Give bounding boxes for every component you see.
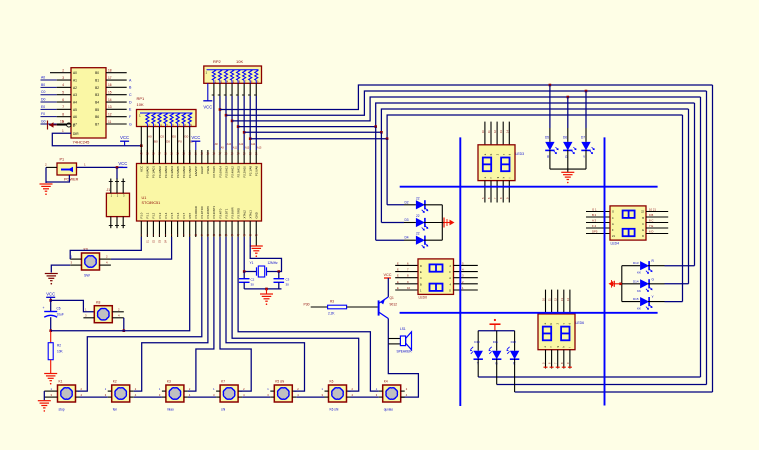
wire K8 pin4 to RST rail bbox=[123, 318, 125, 331]
wire K1 to U1 P3.1 bbox=[78, 237, 202, 391]
svg-text:2: 2 bbox=[62, 69, 64, 73]
LED D2 bbox=[404, 196, 442, 212]
ground at U1 GND pin bbox=[250, 237, 263, 257]
svg-text:A4: A4 bbox=[73, 100, 77, 104]
U2 enable pin 19 with bubble bbox=[57, 120, 79, 137]
crystal ground rail bbox=[244, 288, 281, 294]
svg-text:B0: B0 bbox=[154, 140, 158, 144]
LED D6 tap wire bbox=[567, 96, 570, 142]
bus line vertical right bbox=[604, 137, 606, 405]
K3 pin stubs bbox=[159, 387, 191, 397]
anode rail D10-D12 bbox=[478, 330, 514, 332]
K8 pin stubs bbox=[83, 307, 123, 318]
svg-text:K8: K8 bbox=[96, 301, 100, 305]
wire taps down to D2-D4 anodes bbox=[376, 127, 404, 241]
push button K7 bbox=[220, 380, 238, 412]
display LED3 bottom pins bbox=[481, 181, 509, 203]
power VCC red at Q1 collector bbox=[383, 273, 391, 297]
svg-text:D2: D2 bbox=[405, 200, 409, 204]
power VCC at reset bbox=[46, 291, 55, 300]
svg-text:A3: A3 bbox=[73, 93, 77, 97]
wire U1 P3.6 to K6 bbox=[232, 237, 359, 391]
display LED6 top pins bbox=[542, 290, 570, 314]
LED D3 bbox=[404, 214, 442, 230]
wire D5-D7 cathodes to ground rail bbox=[550, 150, 586, 172]
resistor pack RP1 10K bbox=[137, 96, 197, 127]
svg-text:A 3: A 3 bbox=[592, 219, 596, 223]
K4 pin stubs bbox=[376, 387, 408, 397]
svg-text:SW: SW bbox=[84, 274, 90, 278]
right bus verticals down bbox=[683, 85, 713, 392]
svg-text:C3: C3 bbox=[286, 278, 290, 282]
svg-text:A6: A6 bbox=[73, 115, 77, 119]
power symbol for D10-D12 bbox=[490, 319, 501, 331]
svg-text:C2: C2 bbox=[251, 278, 255, 282]
svg-text:9012: 9012 bbox=[390, 303, 398, 307]
wire XTAL1 to crystal right node bbox=[250, 237, 281, 272]
svg-text:stop: stop bbox=[59, 408, 65, 412]
svg-text:D10: D10 bbox=[474, 340, 480, 344]
LED D5 tap wire bbox=[549, 84, 552, 142]
svg-text:A: A bbox=[612, 222, 614, 226]
svg-text:10K: 10K bbox=[137, 102, 144, 107]
svg-text:DP5: DP5 bbox=[592, 230, 598, 234]
svg-text:E: E bbox=[397, 268, 399, 272]
wire K3 to U1 P3.3 bbox=[188, 237, 214, 391]
svg-text:D5: D5 bbox=[545, 136, 549, 140]
LED D4 bbox=[404, 232, 442, 248]
wire D2-D4 cathode bus bbox=[442, 205, 444, 240]
svg-text:K6 shi: K6 shi bbox=[330, 408, 339, 412]
svg-text:13: 13 bbox=[108, 105, 112, 109]
svg-text:A15: A15 bbox=[257, 147, 262, 150]
svg-text:P1.5: P1.5 bbox=[170, 212, 174, 218]
svg-text:KK: KK bbox=[637, 271, 641, 275]
svg-text:G: G bbox=[129, 122, 132, 126]
svg-text:P1.0: P1.0 bbox=[140, 212, 144, 218]
svg-text:D: D bbox=[420, 264, 422, 268]
P1 pin 2 wire to ground bbox=[45, 163, 69, 184]
LED D12 bbox=[507, 331, 519, 366]
svg-text:P3.2/INT0: P3.2/INT0 bbox=[206, 205, 210, 218]
svg-text:P2.2/A10: P2.2/A10 bbox=[242, 166, 246, 178]
LED D11 bbox=[489, 331, 501, 366]
svg-text:E: E bbox=[642, 228, 644, 232]
svg-text:C0: C0 bbox=[41, 90, 45, 94]
display LED0 left pins bbox=[395, 261, 418, 290]
display LED4 right pins bbox=[646, 208, 668, 234]
svg-text:P1.3: P1.3 bbox=[158, 212, 162, 218]
wire net P2.3 horizontal/vertical run bbox=[238, 103, 694, 127]
ground at K0 dark style bbox=[45, 274, 58, 285]
svg-text:D13: D13 bbox=[633, 261, 639, 265]
power VCC at RP1 common bbox=[120, 135, 129, 146]
svg-text:POWER: POWER bbox=[64, 178, 79, 182]
svg-text:B7: B7 bbox=[95, 122, 99, 126]
wire net P2.5 horizontal/vertical run bbox=[226, 91, 707, 115]
U2 left pins A0-A7 with net labels bbox=[41, 69, 78, 127]
junction RP1 common / VCC bbox=[140, 144, 143, 147]
svg-text:3: 3 bbox=[62, 76, 64, 80]
svg-text:P3.6/WR: P3.6/WR bbox=[230, 207, 234, 218]
svg-text:+: + bbox=[43, 306, 45, 310]
buffer U2 74HC245 body bbox=[71, 68, 106, 145]
svg-text:P1.1: P1.1 bbox=[146, 212, 150, 218]
svg-text:P2.5/A13: P2.5/A13 bbox=[224, 166, 228, 178]
svg-text:G0: G0 bbox=[184, 135, 188, 139]
svg-text:GND: GND bbox=[255, 212, 259, 218]
svg-text:EA/VPP: EA/VPP bbox=[194, 166, 198, 176]
U2 right pins B0-B7 with net labels A-G bbox=[95, 69, 132, 127]
wire K2 to U1 P3.2 bbox=[134, 237, 208, 391]
svg-text:K3: K3 bbox=[167, 380, 171, 384]
svg-text:P0.0/AD0: P0.0/AD0 bbox=[146, 166, 150, 178]
wire RST rail to U1 RST pin bbox=[51, 237, 190, 331]
U1 top pin names (rotated) bbox=[140, 166, 259, 178]
svg-text:14: 14 bbox=[108, 98, 112, 102]
svg-text:shi: shi bbox=[221, 408, 225, 412]
LED D14 bbox=[622, 277, 665, 293]
wire K0 pin2 to U1 P1.5 bbox=[111, 237, 172, 259]
svg-text:K6: K6 bbox=[330, 380, 334, 384]
svg-text:8 C: 8 C bbox=[649, 219, 653, 223]
svg-text:XTAL1: XTAL1 bbox=[249, 210, 253, 219]
P2 bus pull-up wires to RP2 bbox=[214, 96, 256, 150]
svg-text:P2.7/A15: P2.7/A15 bbox=[212, 166, 216, 178]
ground at crystal bbox=[260, 294, 273, 305]
display LED3 top pins bbox=[481, 122, 509, 145]
connector P1 POWER bbox=[57, 158, 79, 182]
svg-text:16: 16 bbox=[108, 83, 112, 87]
junction crystal left node bbox=[243, 270, 246, 273]
K2 pin stubs bbox=[105, 387, 137, 397]
svg-text:B4: B4 bbox=[95, 100, 99, 104]
svg-text:K5 shi: K5 shi bbox=[275, 380, 284, 384]
junction reset VCC bbox=[49, 299, 52, 302]
svg-text:E: E bbox=[397, 274, 399, 278]
svg-text:B5: B5 bbox=[95, 108, 99, 112]
ground at P1 bbox=[40, 184, 53, 195]
net labels A0-G0 on P0 pins bbox=[148, 135, 195, 144]
svg-text:P2.0/A8: P2.0/A8 bbox=[255, 166, 259, 176]
svg-text:LS1: LS1 bbox=[400, 327, 406, 331]
svg-text:A0: A0 bbox=[73, 71, 77, 75]
U1 bottom pin names (rotated) bbox=[140, 205, 259, 218]
svg-text:G0: G0 bbox=[41, 120, 46, 124]
LED D10 bbox=[471, 331, 483, 366]
svg-text:U1: U1 bbox=[142, 196, 147, 200]
bus line horizontal lower bbox=[400, 312, 658, 314]
svg-text:ALE/P: ALE/P bbox=[200, 166, 204, 174]
svg-text:VCC: VCC bbox=[191, 135, 200, 140]
junction K8 to RST rail bbox=[123, 329, 126, 332]
svg-text:B3: B3 bbox=[95, 93, 99, 97]
svg-text:10uF: 10uF bbox=[57, 313, 64, 317]
svg-text:10K: 10K bbox=[236, 59, 243, 64]
svg-text:VCC: VCC bbox=[383, 273, 391, 277]
display LED4 body bbox=[610, 206, 646, 246]
svg-text:C0: C0 bbox=[160, 135, 164, 139]
svg-text:P1.7: P1.7 bbox=[182, 212, 186, 218]
K7 pin stubs bbox=[213, 387, 245, 397]
svg-text:30: 30 bbox=[251, 283, 255, 287]
svg-text:B0: B0 bbox=[41, 83, 45, 87]
svg-text:G: G bbox=[449, 289, 451, 293]
svg-text:RP1: RP1 bbox=[137, 96, 146, 101]
svg-text:P2.1/A9: P2.1/A9 bbox=[249, 166, 253, 176]
svg-text:LED4: LED4 bbox=[611, 242, 620, 246]
P2 corner junction dots bbox=[219, 108, 252, 140]
display LED0 body bbox=[418, 259, 454, 300]
svg-text:P0.5/AD5: P0.5/AD5 bbox=[176, 166, 180, 178]
svg-text:D15: D15 bbox=[633, 297, 639, 301]
svg-text:D7: D7 bbox=[581, 136, 585, 140]
svg-text:E0: E0 bbox=[172, 135, 176, 139]
resistor pack RP2 10K bbox=[204, 59, 262, 84]
svg-text:D0: D0 bbox=[41, 98, 45, 102]
svg-text:C: C bbox=[129, 93, 132, 97]
svg-text:VCC: VCC bbox=[203, 105, 212, 110]
svg-text:A2: A2 bbox=[73, 86, 77, 90]
right LED group anode bus and ground arrow bbox=[609, 266, 622, 302]
junction C6 to RST rail bbox=[49, 329, 52, 332]
svg-text:A14: A14 bbox=[251, 143, 256, 146]
svg-text:22: 22 bbox=[416, 214, 420, 218]
svg-text:R3: R3 bbox=[330, 300, 334, 304]
svg-text:7 E: 7 E bbox=[649, 224, 653, 228]
display LED0 right pins bbox=[454, 261, 478, 290]
svg-text:VCC: VCC bbox=[46, 291, 55, 296]
svg-text:P3.3/INT1: P3.3/INT1 bbox=[212, 205, 216, 218]
svg-text:D3: D3 bbox=[405, 218, 409, 222]
svg-text:F0: F0 bbox=[178, 140, 182, 144]
svg-text:RP2: RP2 bbox=[213, 59, 222, 64]
svg-text:RST: RST bbox=[188, 213, 192, 219]
svg-text:D12: D12 bbox=[511, 340, 517, 344]
push button K5 bbox=[274, 380, 292, 403]
net labels A8-A15 on P2 pins bbox=[215, 143, 262, 150]
svg-text:D14: D14 bbox=[633, 279, 639, 283]
wire U1 P3.4 to K4 bbox=[220, 237, 251, 391]
push button K8 reset bbox=[94, 301, 112, 323]
wire net P2.6 horizontal/vertical run bbox=[220, 85, 713, 110]
svg-text:G 1: G 1 bbox=[592, 208, 597, 212]
wire button chain bottom bbox=[80, 396, 379, 398]
capacitor C3 bbox=[274, 272, 290, 289]
svg-text:Q1: Q1 bbox=[390, 296, 394, 300]
U1 bottom pin stubs and numbers bbox=[141, 221, 259, 237]
svg-text:D4: D4 bbox=[405, 236, 409, 240]
svg-text:KK: KK bbox=[637, 289, 641, 293]
push button K2 bbox=[112, 380, 130, 412]
svg-text:A0: A0 bbox=[41, 76, 45, 80]
svg-text:B0: B0 bbox=[95, 71, 99, 75]
wire net P2.1 horizontal/vertical run bbox=[250, 115, 682, 139]
net label P30 wire bbox=[304, 303, 328, 308]
svg-text:P3.5/T1: P3.5/T1 bbox=[224, 208, 228, 218]
display LED6 body bbox=[538, 314, 584, 350]
transistor Q1 9012 bbox=[379, 296, 398, 319]
svg-text:F0: F0 bbox=[41, 112, 45, 116]
svg-text:5: 5 bbox=[62, 90, 64, 94]
svg-text:11: 11 bbox=[108, 120, 112, 124]
svg-text:P0.6/AD6: P0.6/AD6 bbox=[182, 166, 186, 178]
wire K1 pins to ground bbox=[44, 391, 53, 400]
svg-text:A1: A1 bbox=[73, 78, 77, 82]
crystal Y1 12MHz bbox=[244, 261, 279, 277]
svg-text:miao: miao bbox=[167, 408, 174, 412]
svg-text:74HC245: 74HC245 bbox=[73, 140, 91, 145]
svg-text:KK: KK bbox=[637, 307, 641, 311]
svg-text:P0.3/AD3: P0.3/AD3 bbox=[164, 166, 168, 178]
K5 pin stubs bbox=[267, 387, 299, 397]
svg-text:K4: K4 bbox=[384, 380, 388, 384]
svg-text:P30: P30 bbox=[304, 303, 310, 307]
wire XTAL2 to crystal left node bbox=[243, 237, 245, 272]
svg-text:E: E bbox=[420, 270, 422, 274]
power VCC at RP2 common bbox=[203, 83, 212, 109]
svg-text:10 21: 10 21 bbox=[649, 208, 656, 212]
svg-text:15: 15 bbox=[108, 90, 112, 94]
svg-text:VCC: VCC bbox=[120, 135, 129, 140]
push button K3 bbox=[166, 380, 184, 412]
svg-text:12MHz: 12MHz bbox=[268, 261, 279, 265]
svg-text:9 B: 9 B bbox=[649, 213, 653, 217]
svg-text:D11: D11 bbox=[493, 340, 499, 344]
LED D7 bbox=[581, 136, 594, 160]
svg-text:R2: R2 bbox=[57, 344, 61, 348]
svg-text:A13: A13 bbox=[245, 147, 250, 150]
svg-text:D0: D0 bbox=[166, 140, 170, 144]
wire U2 DIR pin to VCC rail bbox=[52, 133, 141, 145]
svg-text:19: 19 bbox=[60, 120, 64, 124]
LED D15 bbox=[622, 295, 665, 311]
svg-text:6: 6 bbox=[62, 98, 64, 102]
svg-text:LED0: LED0 bbox=[419, 295, 428, 299]
U1 top pin stubs and numbers bbox=[140, 150, 258, 164]
svg-text:F 4: F 4 bbox=[592, 224, 596, 228]
bus line horizontal upper bbox=[400, 186, 658, 188]
svg-text:P0.7/AD7: P0.7/AD7 bbox=[188, 166, 192, 178]
LED D5 bbox=[545, 136, 558, 160]
svg-text:LED6: LED6 bbox=[576, 321, 585, 325]
junction dots bus taps to D2-D4 bbox=[374, 125, 388, 140]
svg-text:10: 10 bbox=[407, 286, 411, 290]
power VCC at U1 EA pin bbox=[191, 135, 200, 150]
wire Q1 emitter to speaker and key bbox=[388, 319, 418, 398]
svg-text:P1.4: P1.4 bbox=[164, 212, 168, 218]
wire VCC to reset button pin1 bbox=[51, 300, 95, 311]
svg-text:4: 4 bbox=[62, 83, 64, 87]
svg-text:SPEAKER: SPEAKER bbox=[397, 350, 413, 354]
push button K4 bbox=[383, 380, 401, 412]
bottom bus horizontals to LED group bbox=[479, 377, 713, 392]
RP2 pin stubs with ticks bbox=[212, 83, 257, 96]
svg-text:D: D bbox=[642, 234, 644, 238]
svg-text:DIR: DIR bbox=[73, 132, 79, 136]
svg-text:2.2K: 2.2K bbox=[328, 312, 335, 316]
svg-text:VCC: VCC bbox=[140, 166, 144, 172]
junction crystal right node bbox=[278, 270, 281, 273]
svg-text:XTAL2: XTAL2 bbox=[242, 210, 246, 219]
svg-text:B1: B1 bbox=[95, 78, 99, 82]
push button K0 bbox=[82, 248, 100, 278]
svg-text:E: E bbox=[397, 286, 399, 290]
svg-text:J1: J1 bbox=[107, 188, 111, 192]
wire U1 P3.5 to K5 bbox=[226, 237, 305, 391]
svg-text:A12: A12 bbox=[239, 143, 244, 146]
svg-text:B6: B6 bbox=[95, 115, 99, 119]
wires right LEDs to bus verticals bbox=[665, 266, 695, 302]
RP1 pins down to MCU P0 bbox=[141, 127, 189, 164]
wire U1 P1.0 to K0 pin1 bbox=[70, 237, 141, 259]
push button K6 bbox=[329, 380, 347, 412]
LED D7 tap wire bbox=[585, 90, 588, 142]
svg-text:K1: K1 bbox=[59, 380, 63, 384]
svg-text:PSEN: PSEN bbox=[206, 166, 210, 174]
ground at K1 bbox=[38, 401, 51, 412]
svg-text:P2.4/A12: P2.4/A12 bbox=[230, 166, 234, 178]
svg-text:quxiao: quxiao bbox=[384, 408, 394, 412]
svg-text:D: D bbox=[129, 100, 132, 104]
svg-text:8: 8 bbox=[62, 112, 64, 116]
push button K1 bbox=[58, 380, 76, 412]
resistor R2 10K bbox=[48, 331, 63, 373]
svg-text:E0: E0 bbox=[41, 105, 45, 109]
wire net P2.2 horizontal/vertical run bbox=[244, 109, 688, 132]
svg-text:B2: B2 bbox=[95, 86, 99, 90]
svg-text:STC89C51: STC89C51 bbox=[142, 201, 161, 205]
wire net P2.4 horizontal/vertical run bbox=[232, 97, 700, 121]
svg-text:C6: C6 bbox=[57, 307, 61, 311]
svg-text:10K: 10K bbox=[57, 350, 64, 354]
ground for D5-D7 bbox=[561, 172, 574, 183]
svg-text:A10: A10 bbox=[227, 143, 232, 146]
svg-text:P2.3/A11: P2.3/A11 bbox=[236, 166, 240, 178]
svg-text:P1.2: P1.2 bbox=[152, 212, 156, 218]
display LED6 bottom pins with no-connect ticks bbox=[542, 350, 572, 369]
bus line vertical left bbox=[459, 137, 461, 406]
svg-text:VCC: VCC bbox=[118, 161, 127, 166]
svg-text:P0.1/AD1: P0.1/AD1 bbox=[152, 166, 156, 178]
svg-text:LED3: LED3 bbox=[516, 152, 525, 156]
svg-text:P3.1/TXD: P3.1/TXD bbox=[200, 206, 204, 218]
svg-text:17: 17 bbox=[108, 76, 112, 80]
speaker LS1 bbox=[397, 327, 413, 354]
wire U1 P3.7 to K7 pin1 bbox=[238, 237, 379, 391]
svg-text:P0.2/AD2: P0.2/AD2 bbox=[158, 166, 162, 178]
svg-text:K7: K7 bbox=[221, 380, 225, 384]
svg-text:B 2: B 2 bbox=[592, 213, 597, 217]
net labels under P1 pins bbox=[147, 239, 168, 243]
K1 pin stubs bbox=[51, 387, 83, 397]
svg-text:K2: K2 bbox=[113, 380, 117, 384]
wires D10-D12 cathodes to bottom bus bbox=[478, 359, 514, 392]
display LED0 inner labels bbox=[420, 264, 452, 293]
svg-text:P1.6: P1.6 bbox=[176, 212, 180, 218]
connector J1 bbox=[106, 179, 129, 229]
svg-text:P3.7/RD: P3.7/RD bbox=[236, 208, 240, 219]
svg-text:G: G bbox=[612, 210, 614, 214]
svg-text:A5: A5 bbox=[73, 108, 77, 112]
capacitor C2 bbox=[239, 272, 255, 289]
svg-text:P3.0/RXD: P3.0/RXD bbox=[194, 206, 198, 218]
svg-text:D6: D6 bbox=[563, 136, 567, 140]
svg-text:12: 12 bbox=[108, 112, 112, 116]
capacitor C6 10uF bbox=[43, 300, 64, 330]
svg-text:C: C bbox=[420, 276, 422, 280]
LED D6 bbox=[563, 136, 576, 160]
